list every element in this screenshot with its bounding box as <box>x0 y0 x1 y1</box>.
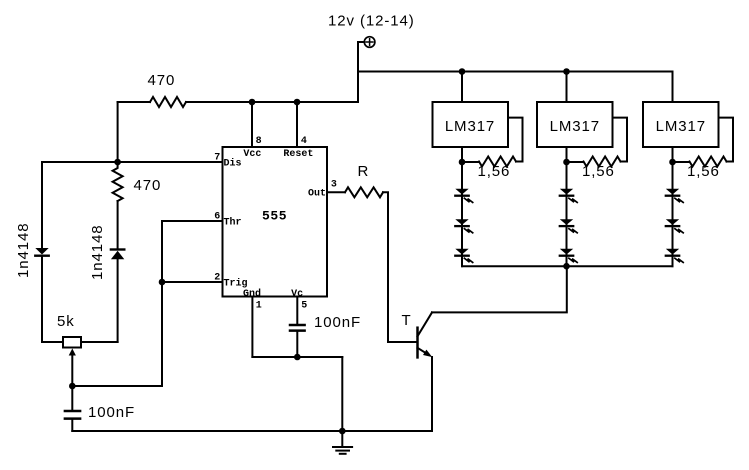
ground <box>333 431 352 454</box>
svg-text:T: T <box>402 312 412 329</box>
LED D7 <box>560 219 577 233</box>
wire Thr/Trig vertical column <box>161 221 163 386</box>
svg-text:470: 470 <box>148 72 176 89</box>
wire gnd node horizontal <box>252 356 342 358</box>
op-amp U2 LM317 (left) <box>433 102 509 147</box>
capacitor C1 100nF (left) <box>65 386 80 431</box>
LED D4 <box>455 219 472 233</box>
junction dot U4 adj node <box>669 159 676 166</box>
wire U4 feedback loop <box>719 118 734 162</box>
wire Vcc rail left segment <box>118 101 150 103</box>
resistor 470 (horizontal) <box>150 97 186 107</box>
svg-text:LM317: LM317 <box>550 118 600 135</box>
node +12V supply terminal <box>364 37 375 48</box>
LED D10 <box>666 219 683 233</box>
wire emitter to ground rail <box>431 357 433 431</box>
svg-text:3: 3 <box>331 180 337 191</box>
wire supply vertical <box>358 42 364 102</box>
svg-text:Reset: Reset <box>283 149 313 160</box>
svg-text:12v (12-14): 12v (12-14) <box>328 13 415 30</box>
svg-text:1,56: 1,56 <box>582 163 615 180</box>
junction dot ground <box>339 428 346 435</box>
wire gnd node down <box>341 357 343 431</box>
svg-text:R: R <box>358 163 370 180</box>
svg-text:1n4148: 1n4148 <box>89 225 106 280</box>
wire Thr (pin 6) <box>162 220 223 222</box>
wire wiper to Thr/Trig column <box>72 385 162 387</box>
svg-text:1,56: 1,56 <box>687 163 720 180</box>
resistor R <box>345 187 383 197</box>
junction dot pin4 <box>294 99 301 106</box>
junction dot LED rail / collector <box>563 263 570 270</box>
junction dot pin8 <box>249 99 256 106</box>
LED D3 <box>455 189 472 203</box>
wire U2 output to adj node <box>462 147 479 162</box>
wire U3 output to adj node <box>567 147 584 162</box>
LED D6 <box>560 189 577 203</box>
svg-text:8: 8 <box>256 136 262 147</box>
junction dot bus/U3 <box>563 68 570 75</box>
potentiometer wiper arrow <box>69 349 76 387</box>
wire U3 feedback loop <box>613 118 628 162</box>
LED D11 <box>666 249 683 263</box>
junction dot Dis node <box>114 159 121 166</box>
junction dot U2 adj node <box>459 159 466 166</box>
svg-text:1n4148: 1n4148 <box>15 223 32 278</box>
LED D5 <box>455 249 472 263</box>
svg-text:Dis: Dis <box>224 158 242 170</box>
wire left column upper <box>41 162 43 248</box>
svg-text:LM317: LM317 <box>445 118 495 135</box>
wire LED bottom rail <box>462 265 673 267</box>
diode D2 1n4148 (cathode up) <box>111 250 124 260</box>
svg-text:555: 555 <box>262 209 287 224</box>
junction dot wiper node <box>69 383 76 390</box>
svg-text:Out: Out <box>308 189 326 200</box>
wire middle column lower <box>117 259 119 342</box>
junction dot Vc/gnd node <box>294 354 301 361</box>
svg-text:4: 4 <box>301 136 307 147</box>
svg-text:100nF: 100nF <box>88 404 135 421</box>
wire LED column 2 <box>566 162 568 266</box>
LED D9 <box>666 189 683 203</box>
LED D8 <box>560 249 577 263</box>
svg-text:1,56: 1,56 <box>478 163 511 180</box>
svg-text:5k: 5k <box>57 313 75 330</box>
wire left column lower <box>41 257 43 342</box>
junction dot bus/U2 <box>459 68 466 75</box>
wire LED column 3 <box>672 162 674 266</box>
wire pin 1 Gnd down <box>251 297 253 358</box>
diode D1 1n4148 (cathode down) <box>35 248 48 256</box>
svg-text:470: 470 <box>134 177 162 194</box>
wire pin 5 Vc down <box>296 297 298 324</box>
wire bottom ground rail <box>72 430 432 432</box>
wire LED column 1 <box>461 162 463 266</box>
potentiometer 5k body <box>42 337 118 348</box>
wire drop to U2 <box>461 72 463 103</box>
wire U2 feedback loop <box>508 118 523 162</box>
resistor 1,56 (left) <box>479 157 516 167</box>
svg-text:LM317: LM317 <box>656 118 706 135</box>
svg-text:2: 2 <box>214 272 220 283</box>
wire Trig (pin 2) <box>162 281 223 283</box>
wire middle column <box>117 201 119 248</box>
wire Vcc rail right segment <box>186 101 358 103</box>
wire pin8 drop <box>251 102 253 147</box>
wire Dis rail (pin 7) <box>42 161 223 163</box>
resistor 470 (vertical) <box>113 162 123 201</box>
junction dot U3 adj node <box>563 159 570 166</box>
resistor 1,56 (right) <box>689 157 726 167</box>
wire corner down to Dis rail <box>117 102 119 162</box>
wire top power bus <box>358 72 673 103</box>
op-amp U1 555 box <box>223 147 328 297</box>
svg-text:Vcc: Vcc <box>243 149 261 160</box>
wire U4 output to adj node <box>673 147 690 162</box>
wire collector to LED rail <box>432 266 567 312</box>
svg-text:1: 1 <box>256 300 262 311</box>
resistor 1,56 (middle) <box>583 157 620 167</box>
svg-text:Trig: Trig <box>224 278 248 290</box>
svg-text:6: 6 <box>214 211 220 222</box>
wire pin4 drop <box>296 102 298 147</box>
op-amp U4 LM317 (right) <box>643 102 719 147</box>
svg-text:7: 7 <box>214 152 220 163</box>
transistor T (NPN) <box>418 312 433 357</box>
wire R to base <box>383 192 418 342</box>
junction dot Trig node <box>159 279 166 286</box>
svg-text:Thr: Thr <box>224 217 242 229</box>
op-amp U3 LM317 (middle) <box>537 102 613 147</box>
svg-text:100nF: 100nF <box>314 314 361 331</box>
svg-text:5: 5 <box>301 300 307 311</box>
wire drop to U3 <box>566 72 568 103</box>
wire Out (pin 3) <box>327 191 345 193</box>
capacitor C2 100nF (right) <box>290 325 305 357</box>
